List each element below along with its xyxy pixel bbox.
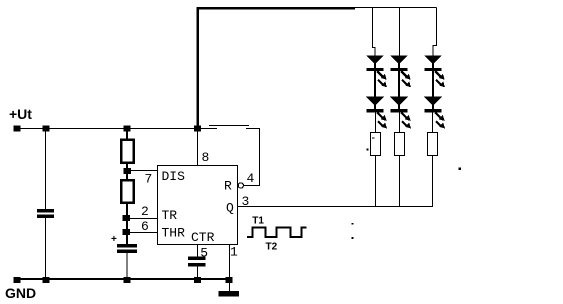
pin R inversion bubble pin4 — [238, 183, 243, 188]
wire D6 to R5 — [432, 112, 434, 133]
wire LED column2 top drop — [399, 8, 401, 57]
resistor R4 — [395, 133, 405, 156]
wire THR pin6 — [129, 232, 157, 234]
capacitor C2 electrolytic — [117, 244, 137, 253]
wire Q output pin3 bus — [238, 206, 434, 208]
op-amp U1 555 timer body — [158, 166, 238, 245]
wire +Ut supply rail — [16, 128, 217, 130]
svg-text:6: 6 — [141, 219, 149, 234]
wire DIS pin7 — [130, 170, 157, 172]
node supply rail / pin8 thick wire junction — [194, 126, 201, 132]
wire node-R2 link — [126, 173, 128, 181]
LED D6 — [424, 97, 445, 129]
resistor R2 — [121, 180, 134, 203]
wire C1 bottom lead — [45, 218, 47, 279]
wire GND rail — [17, 278, 229, 280]
wire R2 bottom lead — [126, 203, 128, 217]
wire reset pin4 pull-up — [244, 129, 260, 186]
wire R5 to Q bus — [432, 156, 434, 208]
stray dot right of Q bus end — [459, 168, 462, 171]
resistor R3 — [371, 133, 381, 156]
svg-text:CTR: CTR — [191, 230, 215, 245]
svg-text:R: R — [224, 179, 232, 194]
svg-text:T1: T1 — [252, 215, 264, 226]
LED D4 — [390, 97, 411, 129]
node supply rail / R1 branch — [123, 126, 130, 132]
wire stray segment above rail — [209, 125, 249, 127]
wire thick top feed to LEDs — [198, 8, 356, 127]
wire D2 to R3 — [375, 112, 377, 133]
svg-text:THR: THR — [162, 226, 186, 241]
svg-text:2: 2 — [141, 204, 149, 219]
wire pin1 to ground — [229, 245, 231, 292]
wire R3 to Q bus — [375, 156, 377, 208]
svg-text:1: 1 — [230, 244, 238, 259]
node GND rail left end — [13, 277, 20, 283]
wire LED column3 spine — [432, 55, 434, 111]
wire LED column3 top drop — [433, 8, 437, 57]
ground — [218, 291, 239, 296]
svg-text:+Ut: +Ut — [9, 106, 32, 122]
svg-text:7: 7 — [145, 172, 153, 187]
wire LED column2 spine — [398, 55, 400, 111]
wire C1 top lead — [45, 129, 47, 209]
svg-text:Q: Q — [226, 201, 234, 216]
LED D1 — [366, 55, 387, 87]
wire TR pin2 — [129, 218, 157, 220]
wire R4 to Q bus — [399, 156, 401, 208]
wire D4 to R4 — [399, 112, 401, 133]
node THR junction — [123, 229, 130, 235]
wire TR-THR link — [126, 221, 128, 230]
capacitor C1 — [37, 209, 54, 218]
node TR junction — [123, 215, 130, 221]
wire R1-R2 link — [126, 163, 128, 169]
node supply rail / C1 branch — [42, 126, 49, 132]
wire C2 bottom lead — [126, 253, 128, 279]
node GND rail / C2 — [123, 277, 130, 283]
LED D3 — [390, 55, 411, 87]
wire LED column1 top drop — [373, 8, 376, 57]
svg-text:4: 4 — [247, 171, 255, 186]
svg-text:TR: TR — [162, 208, 178, 223]
svg-text:T2: T2 — [266, 241, 278, 252]
node GND rail / pin1 — [225, 277, 232, 283]
node GND rail / C3 — [194, 277, 201, 283]
svg-text:GND: GND — [5, 285, 36, 301]
stray mark in R3 — [372, 137, 375, 138]
node GND rail / C1 — [42, 277, 49, 283]
wire R1 top lead — [126, 131, 128, 140]
resistor R1 — [121, 140, 134, 163]
svg-text:DIS: DIS — [162, 169, 186, 184]
wire LED column1 spine — [374, 55, 376, 111]
node R1/R2/DIS junction — [124, 168, 131, 174]
node supply rail left end — [13, 126, 20, 132]
wire thin top feed continuation — [354, 7, 437, 9]
waveform Q square wave — [247, 227, 307, 237]
capacitor C3 control — [188, 257, 206, 267]
wire pin5 lead — [197, 245, 199, 258]
stray dot below T wave 2 — [352, 237, 354, 239]
wire pin8 supply — [197, 131, 199, 165]
wire C3 bottom lead — [197, 266, 199, 279]
LED D5 — [424, 55, 445, 87]
stray dot below T wave 1 — [352, 223, 354, 225]
svg-text:8: 8 — [202, 150, 210, 165]
stray dot left of R3 — [367, 149, 369, 151]
resistor R5 — [428, 133, 438, 156]
wire C2 top lead — [126, 234, 128, 245]
svg-text:+: + — [111, 234, 117, 245]
LED D2 — [366, 97, 387, 129]
